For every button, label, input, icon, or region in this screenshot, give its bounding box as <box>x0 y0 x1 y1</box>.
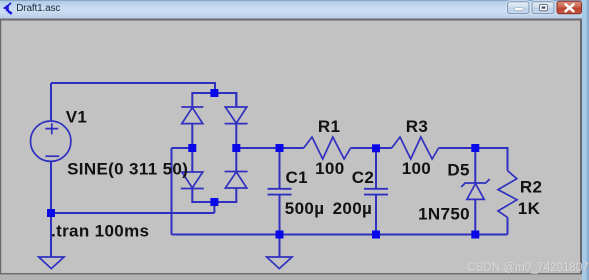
wire C1 top lead <box>279 148 281 189</box>
node C2 top <box>372 144 380 152</box>
capacitor C1 <box>268 189 292 195</box>
wire C2 bottom lead <box>375 195 377 235</box>
diode D4 bottom-right of bridge <box>225 172 248 189</box>
ground V1 <box>39 257 64 269</box>
frame borders <box>0 19 589 21</box>
diode D2 top-right of bridge <box>225 107 248 124</box>
close button <box>557 1 582 14</box>
ground C1 <box>267 257 292 269</box>
wire right column mid <box>235 124 237 172</box>
wire bridge bottom bar <box>192 188 236 202</box>
diode D1 top-left of bridge <box>181 107 203 124</box>
wire mid rail bridge to R1 <box>236 147 303 149</box>
wire mid rail R3 to R2 corner <box>439 148 508 171</box>
wire right column top <box>235 93 237 107</box>
wire ground stem V1 <box>50 213 52 257</box>
restore button <box>531 1 555 15</box>
diode D3 bottom-left of bridge <box>181 172 204 189</box>
wire left column lower <box>191 189 193 204</box>
svg-text:1N750: 1N750 <box>418 204 470 223</box>
resistor R3 <box>392 137 439 159</box>
node D5 bottom <box>471 231 479 239</box>
wire left column upper-mid <box>191 124 193 173</box>
node C1 top <box>276 144 284 152</box>
wire C2 top lead <box>375 148 377 189</box>
node V1 ground <box>47 209 55 217</box>
svg-text:Draft1.asc: Draft1.asc <box>16 3 60 14</box>
svg-text:R1: R1 <box>318 117 340 136</box>
wire V1 bottom rail <box>51 212 214 214</box>
resistor R1 <box>304 137 351 159</box>
wire bridge top bar <box>192 93 236 107</box>
svg-text:.tran 100ms: .tran 100ms <box>51 221 149 240</box>
wire D5 bottom lead <box>474 199 476 234</box>
wire bridge bottom stub to rail <box>213 202 215 213</box>
svg-text:100: 100 <box>402 159 431 178</box>
wire ground stem C1 <box>279 235 281 258</box>
node bridge top <box>210 89 218 97</box>
wire V1 bottom lead <box>50 162 52 214</box>
wire bridge minus stub <box>172 147 193 149</box>
wire bottom output rail <box>172 234 508 236</box>
svg-text:C2: C2 <box>352 168 374 187</box>
svg-text:1K: 1K <box>518 199 541 218</box>
node bridge right mid <box>232 144 240 152</box>
node C1 bottom <box>276 231 284 239</box>
svg-text:100: 100 <box>315 159 344 178</box>
node bridge bottom <box>210 198 218 206</box>
svg-text:R3: R3 <box>406 117 428 136</box>
node bridge left mid <box>188 144 196 152</box>
minimize button <box>507 1 531 15</box>
voltage source V1 <box>31 121 71 161</box>
zener diode D5 <box>461 179 490 199</box>
resistor R2 <box>498 171 517 218</box>
app icon <box>4 3 12 14</box>
svg-text:SINE(0 311 50): SINE(0 311 50) <box>67 160 188 179</box>
window title bar <box>0 0 589 19</box>
svg-text:V1: V1 <box>66 108 88 127</box>
wire V1 top lead <box>50 83 52 122</box>
node C2 bottom <box>372 231 380 239</box>
capacitor C2 <box>364 189 388 195</box>
wire R2 bottom lead <box>507 217 509 234</box>
wire C1 bottom lead <box>279 195 281 235</box>
wire top rail V1 to bridge <box>51 83 215 93</box>
svg-text:R2: R2 <box>520 178 542 197</box>
wire mid rail R1 to R3 <box>351 147 392 149</box>
watermark <box>468 262 589 275</box>
svg-text:500µ: 500µ <box>285 199 325 218</box>
wire left drop <box>171 148 173 235</box>
svg-text:CSDN @m0_74201807: CSDN @m0_74201807 <box>468 262 589 274</box>
wire D5 top lead <box>474 148 476 183</box>
node D5 top <box>471 144 479 152</box>
svg-text:200µ: 200µ <box>333 199 373 218</box>
svg-text:C1: C1 <box>286 168 308 187</box>
svg-text:D5: D5 <box>447 161 469 180</box>
